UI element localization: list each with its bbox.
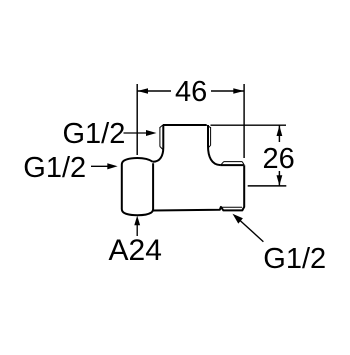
svg-text:G1/2: G1/2 — [63, 118, 126, 150]
svg-text:26: 26 — [263, 143, 295, 175]
svg-text:G1/2: G1/2 — [23, 152, 86, 184]
svg-text:A24: A24 — [109, 234, 162, 267]
svg-text:G1/2: G1/2 — [263, 243, 326, 275]
svg-text:46: 46 — [175, 76, 207, 108]
